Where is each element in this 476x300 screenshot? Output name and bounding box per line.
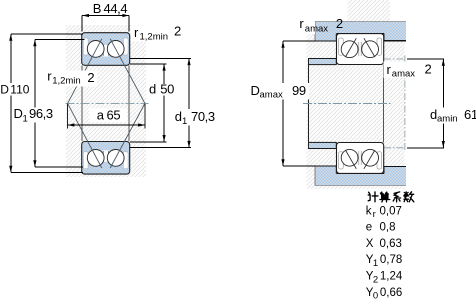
svg-text:amax: amax (305, 23, 328, 34)
label r1,2min 2 (left middle) (44, 71, 97, 87)
svg-text:D: D (14, 106, 23, 121)
label r1,2min 2 (upper right) (131, 26, 184, 42)
housing upper-right shoulder (384, 34, 406, 41)
cage lines (358, 42, 360, 56)
svg-text:0,78: 0,78 (380, 254, 402, 266)
svg-text:2: 2 (174, 24, 181, 39)
dimension Damax 99 (283, 41, 316, 166)
housing bottom band (315, 174, 406, 186)
shaft background hatch bands (right drawing) (348, 0, 391, 22)
bearing lower section (right drawing, mirrored) (337, 143, 384, 174)
svg-text:1,2min: 1,2min (52, 75, 81, 86)
svg-text:44,4: 44,4 (104, 1, 128, 16)
svg-text:amax: amax (392, 69, 415, 80)
contact angle lines (diamond) (68, 39, 145, 168)
right seal notch (377, 38, 382, 55)
ball row 1 (87, 41, 104, 58)
svg-text:0,07: 0,07 (380, 205, 402, 217)
svg-text:1,24: 1,24 (380, 271, 403, 283)
svg-text:1: 1 (373, 258, 378, 269)
ring cross-section body (337, 34, 384, 65)
svg-text:2: 2 (336, 16, 343, 31)
housing top band (315, 22, 406, 34)
svg-text:96,3: 96,3 (29, 106, 53, 121)
shaft lower shoulder ring (309, 142, 337, 148)
dimension a 65 (68, 103, 145, 128)
bore silhouette lines (81, 65, 83, 141)
dimension B 44,4 (82, 16, 129, 32)
table title (368, 192, 414, 202)
svg-text:r: r (373, 209, 376, 220)
inner ring centre gap (103, 45, 109, 57)
housing upper-left shoulder (315, 34, 336, 42)
svg-text:d: d (175, 109, 182, 124)
dimension d 50 (130, 64, 167, 142)
bearing upper section (left drawing) (82, 33, 130, 66)
svg-text:65: 65 (107, 108, 121, 123)
svg-text:1: 1 (182, 116, 187, 127)
centre line (left drawing axis) (66, 102, 149, 104)
shaft left face (308, 59, 310, 149)
svg-text:d: d (149, 81, 156, 96)
dimension d1 70,3 (130, 58, 191, 147)
svg-text:B: B (93, 1, 101, 16)
bearing lower section (left drawing, mirrored) (82, 142, 130, 175)
svg-text:61,: 61, (464, 107, 476, 122)
svg-text:99: 99 (292, 83, 306, 98)
centre line (right drawing axis) (303, 103, 391, 105)
svg-text:D: D (251, 83, 260, 98)
svg-text:amin: amin (437, 114, 458, 125)
svg-text:0,63: 0,63 (380, 238, 402, 250)
svg-text:X: X (366, 238, 374, 250)
dimension D 110 (11, 34, 83, 173)
abutment centerlines (da level) (404, 56, 406, 151)
ring cross-section body (82, 33, 130, 66)
svg-text:e: e (366, 222, 372, 234)
housing lower-right shoulder (384, 166, 406, 173)
svg-text:0,66: 0,66 (380, 287, 402, 299)
svg-text:2: 2 (87, 70, 94, 85)
svg-text:1,2min: 1,2min (140, 32, 169, 43)
ball row 2 (107, 41, 124, 58)
ball row 2 (362, 41, 379, 58)
cage lines (102, 45, 104, 56)
svg-text:d: d (430, 107, 437, 122)
svg-text:1: 1 (23, 113, 28, 124)
svg-text:amax: amax (260, 89, 283, 100)
svg-text:2: 2 (373, 274, 378, 285)
dimension D1 96,3 (35, 40, 85, 168)
bearing upper section (right drawing) (337, 34, 384, 65)
svg-text:110: 110 (10, 82, 29, 96)
svg-text:2: 2 (425, 62, 432, 77)
svg-text:0: 0 (373, 291, 378, 300)
svg-text:50: 50 (160, 81, 174, 96)
contact lines (345, 38, 356, 57)
dimension damin 61 (407, 59, 444, 148)
label ramax 2 (middle right) (384, 62, 433, 79)
shaft upper shoulder ring (309, 59, 337, 65)
svg-text:D: D (0, 82, 9, 96)
left seal notch (339, 38, 344, 55)
svg-text:0,8: 0,8 (380, 222, 396, 234)
label ramax 2 (top) (290, 20, 315, 35)
ball row 1 (341, 41, 358, 58)
svg-text:70,3: 70,3 (191, 109, 215, 124)
svg-text:k: k (366, 205, 372, 217)
right seal notch (123, 38, 128, 55)
svg-text:a: a (97, 108, 105, 123)
shaft right face in bore (383, 65, 385, 143)
housing lower-left shoulder (315, 166, 336, 174)
left seal notch (83, 38, 88, 55)
shaft background hatch band (left drawing) (66, 25, 146, 177)
